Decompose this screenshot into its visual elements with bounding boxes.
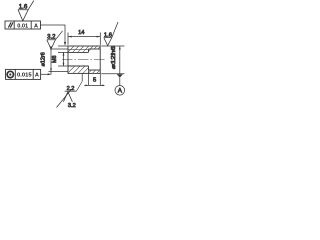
- svg-text:0.015: 0.015: [17, 73, 32, 79]
- svg-text:5: 5: [93, 78, 96, 84]
- leader from shelf to groove: [76, 81, 82, 91]
- parallelism symbol: [8, 22, 13, 27]
- left dim bottom extension: [49, 71, 69, 73]
- leader arrowhead down: [64, 42, 66, 46]
- dimension 5 line: [84, 84, 104, 86]
- coaxiality symbol (concentric circles): [7, 71, 13, 77]
- dimension 5 extension line left (from counterbore step): [88, 70, 90, 85]
- bottom roughness symbol V legs: [63, 92, 72, 102]
- left dim arrows: [50, 46, 52, 49]
- svg-text:M8: M8: [52, 56, 58, 64]
- coax leader arrowhead: [48, 73, 52, 75]
- part outline: threaded bushing section: [68, 46, 100, 73]
- leader from parallelism frame: [41, 25, 66, 43]
- counterbore step top: [88, 49, 90, 52]
- svg-text:1.6: 1.6: [19, 4, 28, 11]
- thread major thin line: [68, 49, 89, 51]
- right extension line top: [101, 45, 124, 47]
- thread dim extension bottom: [58, 65, 68, 67]
- feature control frame: parallelism 0.01 A: [5, 21, 41, 29]
- surface roughness symbol 3.2 (left): [47, 31, 63, 49]
- datum A symbol: filled triangle: [117, 74, 123, 77]
- svg-text:3.2: 3.2: [47, 35, 56, 41]
- svg-text:0.01: 0.01: [17, 23, 28, 29]
- svg-text:3.2: 3.2: [68, 103, 76, 109]
- left dim top extension (outer): [58, 45, 68, 47]
- centerline (axis): [62, 59, 105, 61]
- thread minor top line: [68, 51, 89, 53]
- surface roughness symbol 1.6 (top-left): [18, 1, 34, 21]
- thread dim arrows: [63, 52, 65, 55]
- right dimension line: [119, 46, 121, 74]
- thread dimension line: [63, 52, 65, 66]
- coaxiality feature control frame: [6, 69, 41, 79]
- svg-text:⌀12h6: ⌀12h6: [111, 46, 117, 69]
- counterbore step bottom: [88, 66, 90, 70]
- svg-text:⌀12r6: ⌀12r6: [40, 52, 46, 66]
- thread dim extension top: [58, 51, 68, 53]
- thread minor bottom line: [68, 65, 89, 67]
- svg-text:A: A: [35, 73, 39, 79]
- hatching top band: [68, 46, 100, 52]
- bottom roughness symbol (inverted) long leg: [57, 89, 72, 107]
- groove extension line below part: [81, 73, 83, 81]
- thread major extension line left: [51, 48, 68, 50]
- left outer dimension line: [50, 46, 52, 75]
- dim 14 arrowheads: [68, 36, 72, 38]
- dimension 14 extension lines: [68, 33, 100, 46]
- datum A leader: [119, 78, 121, 86]
- counterbore bottom line: [89, 69, 101, 71]
- counterbore top line: [89, 48, 101, 50]
- hatching bottom band: [68, 66, 100, 73]
- right dim top arrow: [119, 46, 121, 50]
- svg-text:A: A: [34, 23, 38, 29]
- dimension 5 extension line right: [99, 73, 101, 85]
- datum A circle: [115, 86, 125, 96]
- right extension line bottom: [101, 73, 124, 75]
- bottom leader shelf: [65, 90, 77, 92]
- svg-text:14: 14: [78, 30, 84, 36]
- surface roughness symbol 1.6 (right, on extension line): [104, 22, 118, 46]
- dimension 14 line: [68, 36, 100, 38]
- leader from coax frame to dim line: [41, 73, 48, 75]
- svg-text:1.6: 1.6: [104, 32, 112, 38]
- dim 5 outside arrowheads: [85, 85, 88, 87]
